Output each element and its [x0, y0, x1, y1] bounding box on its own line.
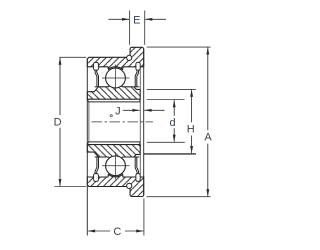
svg-text:C: C	[113, 226, 121, 238]
flange relief notch upper	[127, 55, 132, 60]
left face line (continuous, also C left extension)	[86, 59, 88, 236]
svg-text:D: D	[54, 116, 62, 128]
ball upper	[106, 68, 126, 88]
shields	[95, 70, 97, 87]
small dot detail	[110, 115, 112, 117]
dim d extension lines	[147, 99, 185, 101]
dim D line	[59, 58, 61, 116]
dim H	[191, 90, 193, 123]
flange relief notch lower	[127, 183, 132, 188]
ball lower	[106, 156, 126, 176]
svg-text:H: H	[187, 124, 195, 136]
inner ring lower section	[87, 145, 140, 160]
svg-text:A: A	[204, 132, 212, 144]
dim C extension line right	[143, 199, 145, 236]
svg-text:d: d	[169, 117, 175, 129]
svg-text:J: J	[115, 106, 121, 118]
outer ring upper section (hatched, with flange)	[87, 47, 143, 69]
dim A	[207, 47, 209, 130]
bore line lower	[87, 142, 140, 145]
inner-ring right face / J extension x=140.25	[139, 67, 141, 177]
ball crosshairs	[102, 77, 130, 79]
left inner double line across bore gap	[88, 102, 90, 142]
inner ring upper section (hatched)	[87, 84, 140, 99]
dim D extension lines	[60, 56, 87, 58]
dim A extension lines	[147, 46, 211, 48]
axis centerline	[92, 121, 154, 123]
svg-text:E: E	[133, 15, 140, 27]
dim H extension lines	[147, 88, 196, 90]
dim E extension lines	[129, 11, 131, 45]
bore line upper	[87, 99, 140, 102]
right face line x=143.7	[143, 49, 145, 195]
dim J	[123, 109, 140, 111]
dim C	[88, 230, 110, 232]
seal groove slots	[94, 62, 99, 70]
dim d	[173, 100, 175, 116]
dim E	[109, 18, 130, 20]
outer ring lower section	[87, 174, 143, 196]
